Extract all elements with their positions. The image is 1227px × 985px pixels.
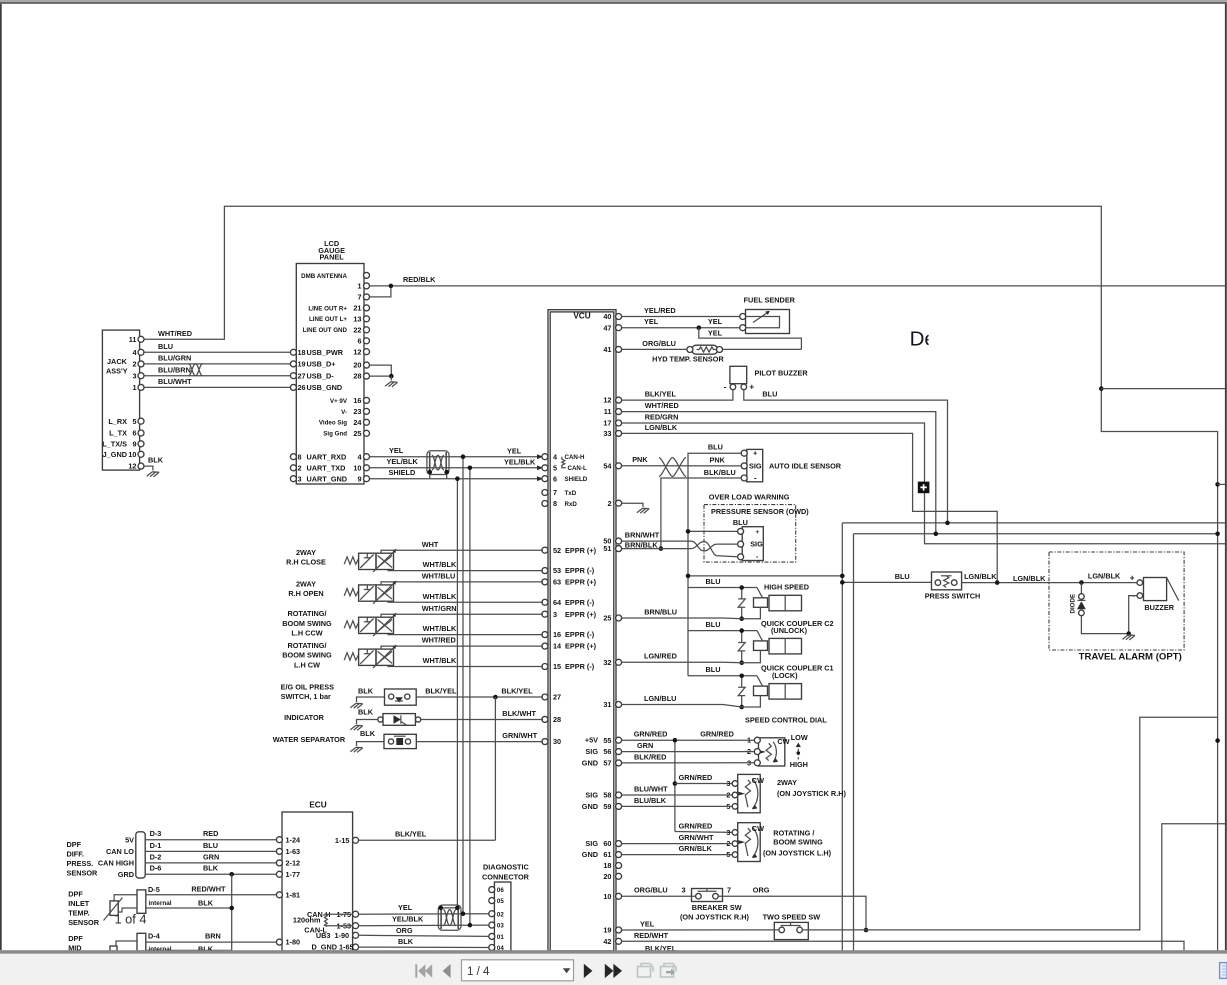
svg-text:11: 11 [604, 407, 612, 416]
wire trunk down x=853.5 [853, 534, 855, 951]
svg-text:UART_TXD: UART_TXD [307, 463, 346, 472]
svg-text:PRESSURE SENSOR (OWD): PRESSURE SENSOR (OWD) [711, 507, 809, 516]
svg-text:61: 61 [603, 850, 611, 859]
svg-text:USB_D-: USB_D- [307, 371, 335, 380]
svg-text:EPPR (+): EPPR (+) [565, 578, 597, 587]
node JACK pin 1 [138, 384, 144, 390]
svg-text:ROTATING/: ROTATING/ [287, 641, 326, 650]
svg-text:L.H CCW: L.H CCW [291, 628, 322, 637]
svg-text:BLK: BLK [198, 898, 214, 907]
twisted-pair symbol on USB D+/D- wires [189, 364, 203, 376]
wire GRN/RED branch to 2WAY pin3 [675, 783, 732, 785]
svg-text:1: 1 [357, 282, 361, 291]
svg-text:BRN/BLK: BRN/BLK [625, 540, 659, 549]
node LCD right pin 28 [364, 373, 370, 379]
wire ORG ECU 1-90 to diag 01 [359, 935, 489, 936]
svg-text:1-81: 1-81 [286, 890, 301, 899]
switch PRESS SWITCH [842, 581, 931, 583]
svg-text:CW: CW [752, 824, 764, 833]
svg-text:HIGH SPEED: HIGH SPEED [764, 583, 809, 592]
node ECU left pin 2-12 [276, 860, 282, 866]
svg-text:JACK: JACK [107, 357, 128, 366]
svg-text:41: 41 [603, 345, 611, 354]
svg-text:3: 3 [681, 886, 685, 895]
wire BLK ECU 1-65 to diag 04 [359, 946, 489, 948]
svg-text:R.H OPEN: R.H OPEN [288, 589, 323, 598]
node VCU left pin 15 [542, 664, 548, 670]
svg-text:8: 8 [553, 499, 557, 508]
svg-text:LGN/BLK: LGN/BLK [645, 423, 678, 432]
node junction travel alarm ground [1126, 631, 1131, 636]
svg-text:WHT/BLK: WHT/BLK [423, 656, 457, 665]
wire BLK/YEL VCU12 to buzzer minus [622, 390, 733, 400]
svg-text:BLU: BLU [733, 518, 748, 527]
svg-text:BUZZER: BUZZER [1144, 603, 1174, 612]
svg-text:(ON JOYSTICK R.H): (ON JOYSTICK R.H) [777, 789, 846, 798]
svg-text:DIFF.: DIFF. [67, 850, 84, 859]
wire WHT/RED net from JACK pin 11 across top to right side [141, 206, 1218, 951]
wire BLK dpf mid internal (cut) [146, 949, 232, 951]
node LCD right pin 20 [364, 362, 370, 368]
svg-text:USB_GND: USB_GND [307, 383, 343, 392]
node VCU right pin 50 [616, 538, 622, 544]
svg-text:SHIELD: SHIELD [389, 468, 416, 477]
svg-text:58: 58 [603, 791, 611, 800]
svg-text:GRN/BLK: GRN/BLK [679, 844, 713, 853]
svg-text:28: 28 [353, 372, 361, 381]
node VCU right pin 56 [616, 749, 622, 755]
node LCD right pin 16 V+ 9V [364, 397, 370, 403]
icon last page [605, 964, 622, 978]
svg-text:57: 57 [603, 759, 611, 768]
wire BRN dpf mid D-4 to ECU 1-80 [146, 941, 277, 943]
dashed box PRESSURE SENSOR (OWD) [704, 505, 796, 562]
node LCD left pin 19 USB_D+ [290, 361, 296, 367]
svg-text:4: 4 [357, 452, 362, 461]
svg-text:YEL/BLK: YEL/BLK [392, 915, 424, 924]
wire ORG/BLU VCU41 to hyd temp sensor [622, 348, 687, 350]
wire PNK VCU54 to auto idle SIG [622, 465, 742, 467]
svg-text:24: 24 [353, 418, 362, 427]
svg-text:ROTATING/: ROTATING/ [287, 609, 326, 618]
svg-text:6: 6 [132, 429, 136, 438]
svg-text:PRESS SWITCH: PRESS SWITCH [925, 591, 981, 600]
node LCD left pin 2 UART_TXD [290, 465, 296, 471]
node JACK pin 9 [138, 441, 144, 447]
shielded twisted pair symbol at diagnostic [438, 905, 461, 930]
svg-text:1-15: 1-15 [335, 836, 350, 845]
svg-text:BOOM SWING: BOOM SWING [773, 838, 823, 847]
svg-text:BLU/GRN: BLU/GRN [158, 354, 191, 363]
potentiometer ROTATING/BOOM SWING ON JOYSTICK L.H [738, 823, 761, 862]
svg-text:SENSOR: SENSOR [68, 918, 100, 927]
svg-text:BRN: BRN [205, 932, 221, 941]
dashed box TRAVEL ALARM (OPT) [1049, 552, 1184, 650]
wire diode return to ground [1081, 616, 1128, 634]
resistor 120ohm CAN terminator [325, 914, 328, 926]
node LCD right pin 24 Video Sig [364, 419, 370, 425]
svg-text:GND: GND [582, 758, 598, 767]
node diagnostic pin 06 [489, 887, 495, 893]
svg-text:CAN-L: CAN-L [568, 465, 587, 472]
svg-text:120ohm: 120ohm [293, 915, 321, 924]
sensor AUTO IDLE SENSOR [747, 449, 763, 481]
svg-text:WHT/RED: WHT/RED [422, 636, 456, 645]
node ECU right pin 1-53 [353, 923, 359, 929]
node junction at (1217.6,484.4) [1215, 482, 1220, 487]
svg-text:25: 25 [353, 429, 361, 438]
svg-text:64: 64 [553, 598, 562, 607]
sensor OWD pressure sensor connector [742, 527, 763, 561]
svg-text:BLK/BLU: BLK/BLU [704, 468, 736, 477]
wire WHT/RED horizontal y=533.8 [854, 533, 1218, 535]
IC ECU engine control unit box [282, 812, 353, 951]
icon next page [584, 964, 593, 978]
svg-text:5: 5 [553, 463, 557, 472]
wire BLK trunk down to bottom [231, 874, 233, 951]
svg-text:33: 33 [603, 429, 611, 438]
ground in travel alarm [1123, 635, 1135, 640]
svg-text:J_GND: J_GND [103, 450, 127, 459]
svg-text:54: 54 [603, 461, 612, 470]
svg-text:13: 13 [353, 314, 361, 323]
twisted pair symbol PNK/BLKBLU [659, 458, 686, 477]
wire LCD pin 28 to ground [370, 375, 392, 377]
svg-text:BOOM SWING: BOOM SWING [282, 619, 332, 628]
svg-text:GRN: GRN [203, 852, 219, 861]
svg-text:28: 28 [553, 715, 561, 724]
svg-text:V+ 9V: V+ 9V [330, 398, 348, 405]
wire BLU/WHT VCU58 to 2way pin2 [622, 794, 732, 796]
node VCU right pin 12 [616, 397, 622, 403]
svg-text:YEL: YEL [389, 446, 404, 455]
svg-text:ORG: ORG [753, 886, 770, 895]
node VCU left pin 27 [542, 694, 548, 700]
svg-text:L_TX: L_TX [109, 429, 127, 438]
node ECU right pin 1-90 [353, 932, 359, 938]
wire YEL VCU47 to fuel sender [622, 327, 740, 329]
svg-text:22: 22 [353, 325, 361, 334]
wire RED dpf D-3 to ECU 1-24 [145, 839, 276, 841]
svg-text:DPF: DPF [68, 934, 83, 943]
node ECU left pin 1-24 [276, 837, 282, 843]
node VCU right pin 18 [616, 863, 622, 869]
node diagnostic pin 01 [489, 933, 495, 939]
arrow LOW-HIGH direction [797, 745, 799, 761]
svg-text:+: + [753, 449, 757, 458]
node VCU right pin 51 [616, 546, 622, 552]
node diagnostic pin 05 [489, 898, 495, 904]
svg-text:53: 53 [553, 566, 561, 575]
svg-text:16: 16 [553, 630, 561, 639]
node junction SHIELD trunk [455, 476, 460, 481]
svg-text:DMB ANTENNA: DMB ANTENNA [301, 273, 347, 280]
node LCD right pin 10 [364, 465, 370, 471]
svg-text:-: - [754, 473, 757, 482]
node junction BLU at 947.5 [945, 521, 950, 526]
svg-text:18: 18 [603, 861, 611, 870]
diode DIODE vertical [1080, 583, 1082, 594]
svg-text:03: 03 [497, 923, 504, 930]
svg-text:6: 6 [553, 474, 557, 483]
wire WHT/RED VCU11 right trunk [622, 412, 936, 534]
wire LCD pin 20 to ground [370, 365, 392, 376]
wire BRN/WHT VCU50 to OWD SIG [622, 540, 691, 542]
node VCU right pin 11 [616, 409, 622, 415]
node junction on WHT/RED trunk at x=1101 [1099, 386, 1104, 391]
buzzer PILOT BUZZER [730, 366, 747, 383]
svg-text:SIG: SIG [750, 540, 763, 549]
svg-text:55: 55 [603, 736, 611, 745]
svg-text:12: 12 [128, 462, 136, 471]
svg-text:GRN/WHT: GRN/WHT [502, 731, 537, 740]
node VCU right pin 31 [616, 702, 622, 708]
svg-text:RED/BLK: RED/BLK [403, 275, 436, 284]
svg-text:SENSOR: SENSOR [67, 869, 99, 878]
node VCU right pin 59 [616, 803, 622, 809]
svg-text:BLU/BRN: BLU/BRN [158, 365, 191, 374]
shielded twisted pair symbol on UART wires [427, 451, 449, 475]
svg-text:D-3: D-3 [150, 829, 162, 838]
node VCU left pin 52 [542, 547, 548, 553]
node VCU right pin 55 [616, 737, 622, 743]
svg-text:ORG/BLU: ORG/BLU [642, 339, 676, 348]
node VCU right pin 40 [616, 314, 622, 320]
svg-text:GRN/RED: GRN/RED [634, 730, 668, 739]
node junction BLK trunk top [229, 872, 234, 877]
svg-text:YEL: YEL [507, 446, 522, 455]
wire BLU/WHT jack1 to LCD26 [144, 386, 293, 388]
node JACK pin 4 [138, 349, 144, 355]
node VCU left pin 7 [542, 490, 548, 496]
svg-text:LINE OUT L+: LINE OUT L+ [309, 316, 347, 323]
svg-text:2: 2 [298, 463, 302, 472]
svg-text:BLK/WHT: BLK/WHT [502, 709, 536, 718]
node junction BLK/YEL to ECU 1-15 [493, 695, 498, 700]
svg-text:EPPR (-): EPPR (-) [565, 630, 595, 639]
svg-text:21: 21 [353, 304, 361, 313]
wire BLU supply QUICK COUPLER C2 [688, 630, 757, 632]
wire BLU auto idle plus to trunk x=688 [688, 453, 741, 676]
solenoid coil QUICK COUPLER C2 [754, 641, 768, 651]
node LCD right pin 7 [364, 294, 370, 300]
node ECU right pin 1-15 [353, 837, 359, 843]
svg-text:RED/WHT: RED/WHT [191, 885, 226, 894]
ground at VCU pin 2 [640, 503, 643, 507]
svg-text:7: 7 [357, 293, 361, 302]
node VCU left pin 53 [542, 568, 548, 574]
icon first page (disabled) [415, 964, 417, 977]
node JACK pin 6 [138, 430, 144, 436]
svg-text:SIG: SIG [585, 747, 598, 756]
svg-text:BRN/BLU: BRN/BLU [644, 607, 677, 616]
svg-text:3: 3 [726, 828, 730, 837]
svg-text:ROTATING /: ROTATING / [773, 829, 814, 838]
svg-text:BLK/YEL: BLK/YEL [425, 686, 457, 695]
svg-text:05: 05 [497, 898, 504, 905]
svg-text:(ON JOYSTICK R.H): (ON JOYSTICK R.H) [680, 912, 749, 921]
svg-text:E/G OIL PRESS: E/G OIL PRESS [281, 683, 335, 692]
node VCU left pin 63 [542, 579, 548, 585]
svg-text:2: 2 [132, 360, 136, 369]
svg-text:WATER SEPARATOR: WATER SEPARATOR [273, 735, 346, 744]
node LCD right pin DMB ANTENNA [364, 272, 370, 278]
svg-text:ORG/BLU: ORG/BLU [634, 886, 668, 895]
svg-text:12: 12 [603, 396, 611, 405]
wire shield drain drops from symbol [429, 472, 431, 479]
svg-text:GND: GND [582, 850, 598, 859]
svg-text:27: 27 [298, 371, 306, 380]
wire GRN/RED VCU55 to dial pin1 [622, 739, 755, 741]
wire ORG/BLU VCU10 to breaker [622, 895, 696, 897]
node JACK pin 2 [138, 361, 144, 367]
svg-text:GND: GND [582, 802, 598, 811]
svg-text:UART_GND: UART_GND [307, 474, 348, 483]
svg-text:3: 3 [298, 474, 302, 483]
svg-text:RED: RED [203, 829, 218, 838]
svg-text:1: 1 [132, 383, 136, 392]
svg-text:WHT/BLK: WHT/BLK [423, 560, 457, 569]
node junction BLU feeder right [840, 574, 845, 579]
node JACK pin 10 [138, 451, 144, 457]
svg-text:7: 7 [727, 886, 731, 895]
wire BLK/YEL vertical to ECU pin 1-15 [494, 697, 496, 840]
svg-text:4: 4 [553, 452, 558, 461]
svg-text:BLU: BLU [706, 665, 721, 674]
svg-text:8: 8 [298, 452, 302, 461]
wire LGN/BLU return to VCU [622, 705, 742, 708]
svg-text:UART_RXD: UART_RXD [307, 452, 347, 461]
node LCD right pin 21 LINE OUT R+ [364, 305, 370, 311]
svg-text:1 of 4: 1 of 4 [115, 912, 147, 927]
svg-text:56: 56 [603, 747, 611, 756]
svg-text:YEL: YEL [640, 919, 655, 928]
svg-text:RxD: RxD [565, 501, 578, 508]
svg-text:CAN LO: CAN LO [106, 847, 134, 856]
svg-text:ORG: ORG [396, 926, 413, 935]
wire RED/WHT VCU42 bottom run [622, 941, 1184, 951]
node LCD right pin 13 LINE OUT L+ [364, 316, 370, 322]
wire shield jumper at diagnostic [441, 907, 458, 909]
node VCU left pin 14 [542, 643, 548, 649]
svg-text:WHT/RED: WHT/RED [158, 329, 192, 338]
svg-text:CW: CW [777, 737, 789, 746]
svg-text:SPEED CONTROL DIAL: SPEED CONTROL DIAL [745, 715, 827, 724]
wire stub y=484.4 to right edge [1218, 483, 1227, 485]
node LCD left pin 27 USB_D- [290, 373, 296, 379]
valve solenoid 2WAY R.H CLOSE [344, 557, 358, 564]
svg-text:1-77: 1-77 [286, 870, 301, 879]
svg-text:SWITCH, 1 bar: SWITCH, 1 bar [281, 692, 331, 701]
node LCD left pin 3 UART_GND [290, 476, 296, 482]
svg-text:DPF: DPF [67, 840, 82, 849]
wire BRN/BLU return to VCU [622, 617, 742, 620]
node JACK pin 3 [138, 373, 144, 379]
svg-text:11: 11 [129, 335, 137, 344]
svg-text:RED/WHT: RED/WHT [634, 931, 669, 940]
svg-text:GRN/RED: GRN/RED [679, 773, 713, 782]
node ECU left pin 1-80 [276, 939, 282, 945]
svg-text:BLU/WHT: BLU/WHT [634, 785, 668, 794]
wire YEL branch to hyd temp output [699, 328, 802, 350]
svg-text:26: 26 [298, 383, 306, 392]
node VCU right pin 61 [616, 852, 622, 858]
svg-text:PRESS.: PRESS. [67, 859, 94, 868]
wire hyd temp sensor to YEL branch [723, 348, 802, 350]
svg-text:17: 17 [603, 419, 611, 428]
node junction YEL trunk at diag [461, 911, 466, 916]
node VCU right pin 17 [616, 420, 622, 426]
svg-text:AUTO IDLE SENSOR: AUTO IDLE SENSOR [769, 461, 842, 470]
svg-text:DPF: DPF [68, 889, 83, 898]
node VCU left pin 30 [542, 739, 548, 745]
solenoid coil QUICK COUPLER C1 [754, 686, 768, 696]
svg-text:WHT/GRN: WHT/GRN [422, 604, 457, 613]
svg-text:BRN/WHT: BRN/WHT [625, 531, 660, 540]
svg-text:EPPR (-): EPPR (-) [565, 566, 595, 575]
wire branch y=388.6 to right edge [1101, 388, 1227, 390]
node ECU right pin 1-75 [353, 911, 359, 917]
node junction at (1217.6,740.6) [1215, 738, 1220, 743]
diode suppressor HIGH SPEED [741, 588, 743, 599]
svg-text:L_RX: L_RX [108, 417, 127, 426]
svg-text:LINE OUT GND: LINE OUT GND [303, 327, 348, 334]
node VCU right pin 41 [616, 346, 622, 352]
svg-text:BLU: BLU [158, 342, 173, 351]
svg-text:ASS'Y: ASS'Y [106, 367, 128, 376]
svg-text:PANEL: PANEL [319, 253, 344, 262]
svg-text:2WAY: 2WAY [296, 548, 316, 557]
svg-text:V-: V- [341, 409, 347, 416]
IC VCU main connector box [548, 310, 616, 951]
node VCU left pin 4 [542, 454, 548, 460]
input page number combo box [462, 960, 574, 981]
svg-text:52: 52 [553, 546, 561, 555]
svg-text:BLU: BLU [762, 390, 777, 399]
wire BLK/RED VCU57 to dial pin3 [622, 762, 755, 764]
svg-text:4: 4 [132, 348, 137, 357]
svg-text:D-1: D-1 [150, 841, 162, 850]
node diagnostic pin 03 [489, 922, 495, 928]
valve solenoid ROTATING/BOOM SWING L.H CW [344, 653, 358, 660]
svg-text:TRAVEL ALARM (OPT): TRAVEL ALARM (OPT) [1079, 652, 1182, 663]
svg-text:GRN: GRN [637, 741, 653, 750]
svg-text:7: 7 [553, 488, 557, 497]
svg-text:25: 25 [603, 614, 611, 623]
svg-text:6: 6 [357, 336, 361, 345]
wire BLU/BRN jack3 to LCD27 [144, 375, 293, 377]
svg-text:2: 2 [607, 499, 611, 508]
icon next view (disabled) [661, 967, 674, 978]
svg-text:WHT: WHT [422, 540, 439, 549]
node VCU left pin 28 [542, 716, 548, 722]
svg-text:WHT/RED: WHT/RED [645, 401, 679, 410]
svg-text:VCU: VCU [573, 312, 590, 321]
wire YEL ECU 1-75 to diag 02 [359, 913, 489, 916]
wire YEL LCD4 to VCU CAN-H [370, 456, 544, 458]
svg-text:INLET: INLET [68, 899, 90, 908]
node junction YEL tap [697, 325, 702, 330]
svg-text:12: 12 [353, 347, 361, 356]
wire GRN VCU56 to dial pin2 [622, 751, 755, 753]
svg-text:-: - [724, 383, 727, 392]
wire SHIELD LCD9 to VCU pin6 [370, 478, 544, 480]
svg-text:YEL: YEL [644, 317, 659, 326]
wire GRN/WHT VCU60 to rotating pin2 [622, 843, 732, 845]
svg-text:SIG: SIG [749, 461, 762, 470]
svg-text:BLU: BLU [203, 841, 218, 850]
node JACK pin 5 [138, 418, 144, 424]
